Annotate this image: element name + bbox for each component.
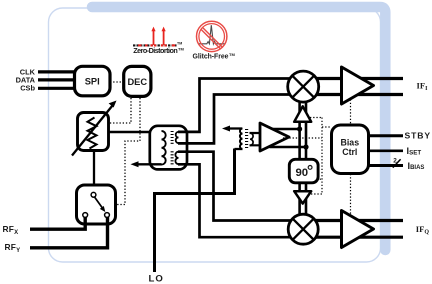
wire balun to I mixer plus	[178, 79, 292, 132]
svg-text:Zero-Distortion: Zero-Distortion	[133, 46, 178, 55]
chip shadow	[92, 7, 385, 250]
LO balun T2	[235, 129, 254, 150]
variable attenuator	[72, 101, 117, 156]
SPI block	[75, 66, 111, 96]
DEC block	[124, 66, 151, 96]
svg-text:CSb: CSb	[20, 84, 35, 93]
LO amp U3	[260, 123, 289, 151]
junction dot Q	[303, 144, 308, 149]
mixer I	[288, 71, 319, 102]
IF_I amp U1	[342, 67, 374, 104]
wire RFY	[30, 217, 108, 247]
LO down arrow	[294, 191, 311, 203]
wire DEC to attenuator dotted	[108, 98, 132, 123]
zero-distortion logo arrow 1	[151, 27, 155, 45]
glitch-free logo prohibition circle	[197, 21, 227, 51]
LO differential pair lower	[300, 183, 306, 215]
wire RFX	[30, 217, 85, 229]
svg-text:90: 90	[295, 167, 308, 179]
LO up arrow	[294, 106, 311, 122]
LO balun return arrow	[222, 126, 242, 132]
wire I mixer to IF amp bottom	[303, 93, 403, 96]
svg-text:STBY: STBY	[405, 130, 432, 140]
svg-text:TM: TM	[178, 47, 184, 52]
wire CSb	[38, 87, 74, 90]
dashed bias to IF_I amp	[350, 100, 352, 125]
wire LO balun to amp	[250, 133, 262, 145]
mixer Q	[288, 214, 318, 244]
wire DATA	[38, 78, 74, 81]
dashed branch to bias	[322, 126, 332, 128]
wire balun to Q mixer minus	[178, 164, 292, 237]
svg-text:TM: TM	[177, 42, 182, 46]
wire LO amp to I mixer branch	[273, 128, 300, 130]
svg-text:SPI: SPI	[85, 76, 100, 86]
RF balun T1	[150, 126, 187, 170]
LO differential pair upper	[300, 101, 306, 160]
wire Q mixer to IF amp bottom	[303, 236, 403, 239]
zero-distortion logo baseline	[133, 42, 182, 46]
wire SPI to DEC dotted	[110, 81, 122, 83]
svg-text:Glitch-Free: Glitch-Free	[193, 54, 229, 61]
wire attenuator to balun	[108, 131, 162, 134]
glitch-free logo waveform	[199, 25, 226, 44]
junction dot I	[297, 126, 302, 131]
wire Q mixer to IF amp top	[303, 219, 403, 222]
wire I mixer to IF amp top	[303, 77, 403, 80]
svg-text:2: 2	[393, 158, 397, 165]
dashed bias to IF_Q amp	[350, 174, 352, 216]
wire LO amp to Q mixer branch	[270, 146, 307, 148]
bus width slash	[393, 159, 401, 167]
dashed branch to LO amp	[283, 137, 322, 139]
wire CLK	[38, 70, 74, 73]
wire balun to I mixer minus	[178, 95, 292, 144]
phase shifter 90	[289, 159, 318, 183]
wire ISET	[369, 150, 404, 153]
dashed branch to up arrow	[310, 117, 322, 119]
switch SW1	[77, 185, 116, 224]
wire balun to Q mixer plus	[178, 152, 292, 221]
RF balun primary return arrow	[131, 161, 162, 167]
wire LO	[155, 149, 235, 273]
svg-text:DEC: DEC	[127, 77, 147, 87]
wire IBIAS	[369, 164, 404, 167]
wire attenuator to switch	[93, 149, 95, 193]
wire STBY	[369, 134, 404, 137]
svg-text:Ctrl: Ctrl	[342, 147, 357, 157]
svg-text:TM: TM	[229, 52, 235, 57]
dashed branch to down arrow	[311, 193, 322, 195]
dashed branch to 90 block	[317, 178, 323, 180]
zero-distortion logo arrow 2	[162, 27, 166, 45]
chip outline	[49, 8, 381, 262]
IF_Q amp U4	[342, 211, 374, 248]
wire DEC to switch dotted	[116, 98, 141, 205]
bias control block	[332, 125, 369, 174]
dashed control bus right	[321, 118, 323, 195]
svg-text:LO: LO	[149, 273, 164, 284]
